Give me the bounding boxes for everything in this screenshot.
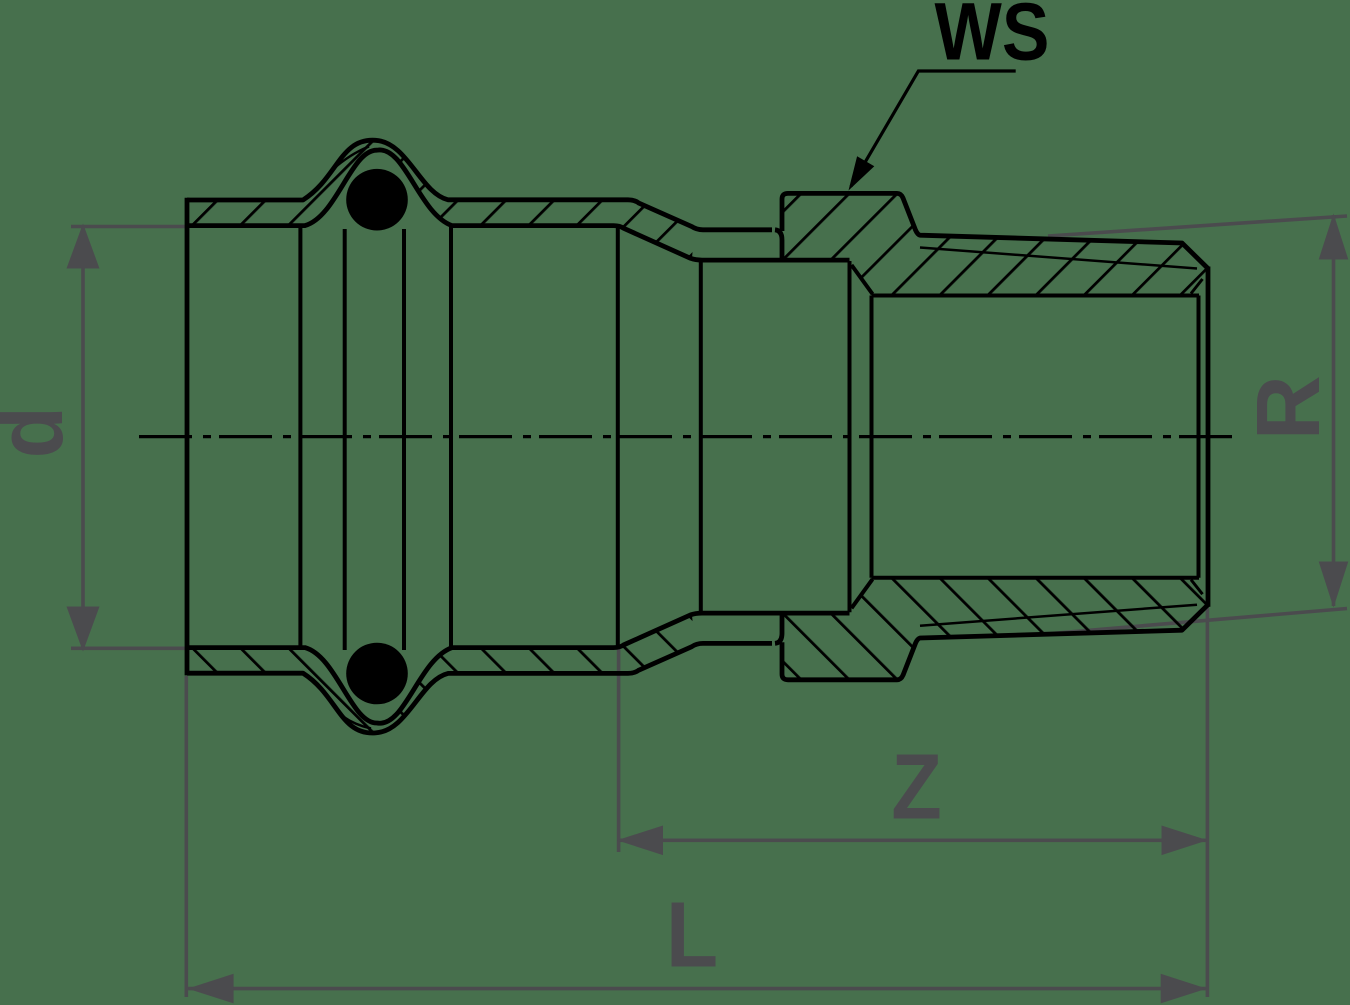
svg-text:d: d [0, 406, 83, 458]
small bore lower line [872, 576, 1200, 580]
dimension R: top arrowhead [1319, 214, 1349, 260]
svg-text:WS: WS [935, 0, 1050, 78]
dimension R: dimension line [1332, 215, 1336, 606]
dimension R: upper slanted extension line [1048, 216, 1347, 236]
tube stop edge [449, 227, 453, 647]
dimension L: left arrowhead [188, 974, 234, 1004]
bead groove right edge [402, 229, 406, 650]
dimension R: bottom arrowhead [1319, 562, 1349, 608]
svg-text:L: L [666, 882, 718, 986]
dimension d: bottom extension line [71, 646, 185, 650]
flange outline and thread crest line with end chamfer [775, 193, 1208, 268]
small bore start edge [870, 296, 874, 578]
bead tangent edge (upper left flank) [332, 147, 369, 171]
dimension d: dimension line [81, 228, 85, 647]
dimension L: left extension line [185, 676, 189, 997]
inner profile: socket bore, bead groove, cone bore [187, 150, 850, 260]
dimension Z: dimension line [617, 838, 1208, 842]
cone start edge [616, 227, 620, 647]
dimension L: dimension line [188, 987, 1207, 991]
dimension d: top arrowhead [67, 224, 100, 269]
bead tangent edge (lower left flank) [343, 717, 371, 729]
hatch fill: socket wall and cone section [187, 140, 695, 258]
dimension d: top extension line [71, 225, 185, 229]
thread end face [1206, 267, 1211, 607]
dimension d: bottom arrowhead [67, 607, 100, 652]
WS leader arrowhead [849, 156, 875, 190]
small bore upper line [872, 294, 1200, 298]
fitting lower half (mirror of upper half) [187, 578, 1208, 733]
internal step chamfer [852, 265, 873, 294]
WS leader line [851, 71, 1016, 186]
dimension Z: left arrowhead [617, 826, 663, 856]
O-ring seal (section, filled) [346, 169, 408, 231]
groove start edge [298, 227, 302, 647]
bore end edge [1197, 296, 1201, 578]
internal step edge [848, 261, 852, 612]
bead groove left edge [343, 229, 347, 650]
svg-text:R: R [1239, 375, 1339, 440]
outer profile: socket wall, O-ring bead, reduction cone, collar [187, 140, 772, 230]
dimension L: right arrowhead [1161, 974, 1207, 1004]
dimension Z and L: shared right extension line [1206, 608, 1210, 998]
thread root line (thin) [920, 248, 1197, 269]
inner chamfer at thread end [1191, 279, 1203, 294]
dimension R: lower slanted extension line [1045, 609, 1347, 635]
centerline (dash-dot axis) [139, 435, 1233, 438]
cone end edge [699, 261, 703, 612]
fitting upper half (press socket, bead, cone, hex flange, male thread) [187, 140, 1208, 295]
hatch fill: flange and threaded wall section [782, 193, 1208, 295]
socket mouth edge (left end face) [185, 198, 190, 676]
svg-text:Z: Z [891, 734, 942, 839]
dimension Z: left extension line [617, 647, 621, 852]
dimension Z: right arrowhead [1162, 826, 1208, 856]
